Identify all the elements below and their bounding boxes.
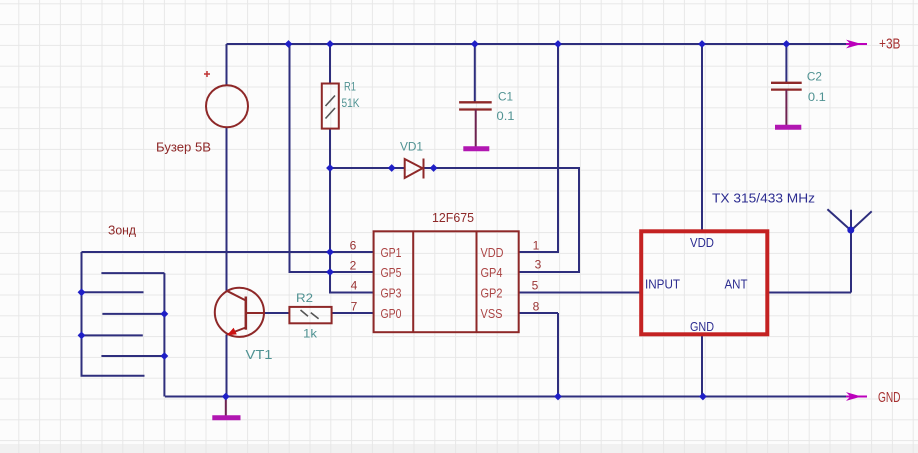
svg-text:7: 7 [351,300,358,314]
svg-text:VD1: VD1 [400,140,423,154]
svg-text:1k: 1k [303,327,318,341]
svg-text:GP3: GP3 [381,287,402,301]
svg-text:GND: GND [690,320,714,334]
svg-text:C2: C2 [807,70,822,84]
svg-text:GP5: GP5 [381,266,402,280]
svg-text:5: 5 [532,279,539,293]
svg-text:GND: GND [878,390,901,406]
svg-text:1: 1 [533,239,540,253]
svg-text:GP4: GP4 [481,266,503,280]
svg-text:ANT: ANT [725,278,748,292]
svg-text:VDD: VDD [481,246,504,260]
svg-text:GP2: GP2 [481,287,503,301]
svg-text:GP0: GP0 [381,307,402,321]
svg-text:6: 6 [350,239,357,253]
svg-text:INPUT: INPUT [645,278,680,292]
svg-text:Бузер 5В: Бузер 5В [156,141,211,155]
svg-text:51K: 51K [342,96,360,110]
svg-text:GP1: GP1 [381,246,402,260]
svg-text:4: 4 [351,279,358,293]
svg-text:8: 8 [533,300,540,314]
svg-text:12F675: 12F675 [432,211,474,225]
svg-text:2: 2 [350,259,357,273]
svg-text:TX 315/433 MHz: TX 315/433 MHz [712,192,815,206]
svg-text:C1: C1 [498,90,513,104]
svg-text:R1: R1 [344,80,356,94]
svg-text:0.1: 0.1 [497,109,515,123]
svg-text:VDD: VDD [690,236,714,250]
svg-text:Зонд: Зонд [108,224,137,238]
svg-text:VSS: VSS [481,307,503,321]
svg-text:0.1: 0.1 [808,90,826,104]
svg-text:R2: R2 [296,291,313,305]
svg-text:3: 3 [535,258,542,272]
svg-text:+3В: +3В [879,37,901,53]
svg-text:VT1: VT1 [246,347,273,362]
